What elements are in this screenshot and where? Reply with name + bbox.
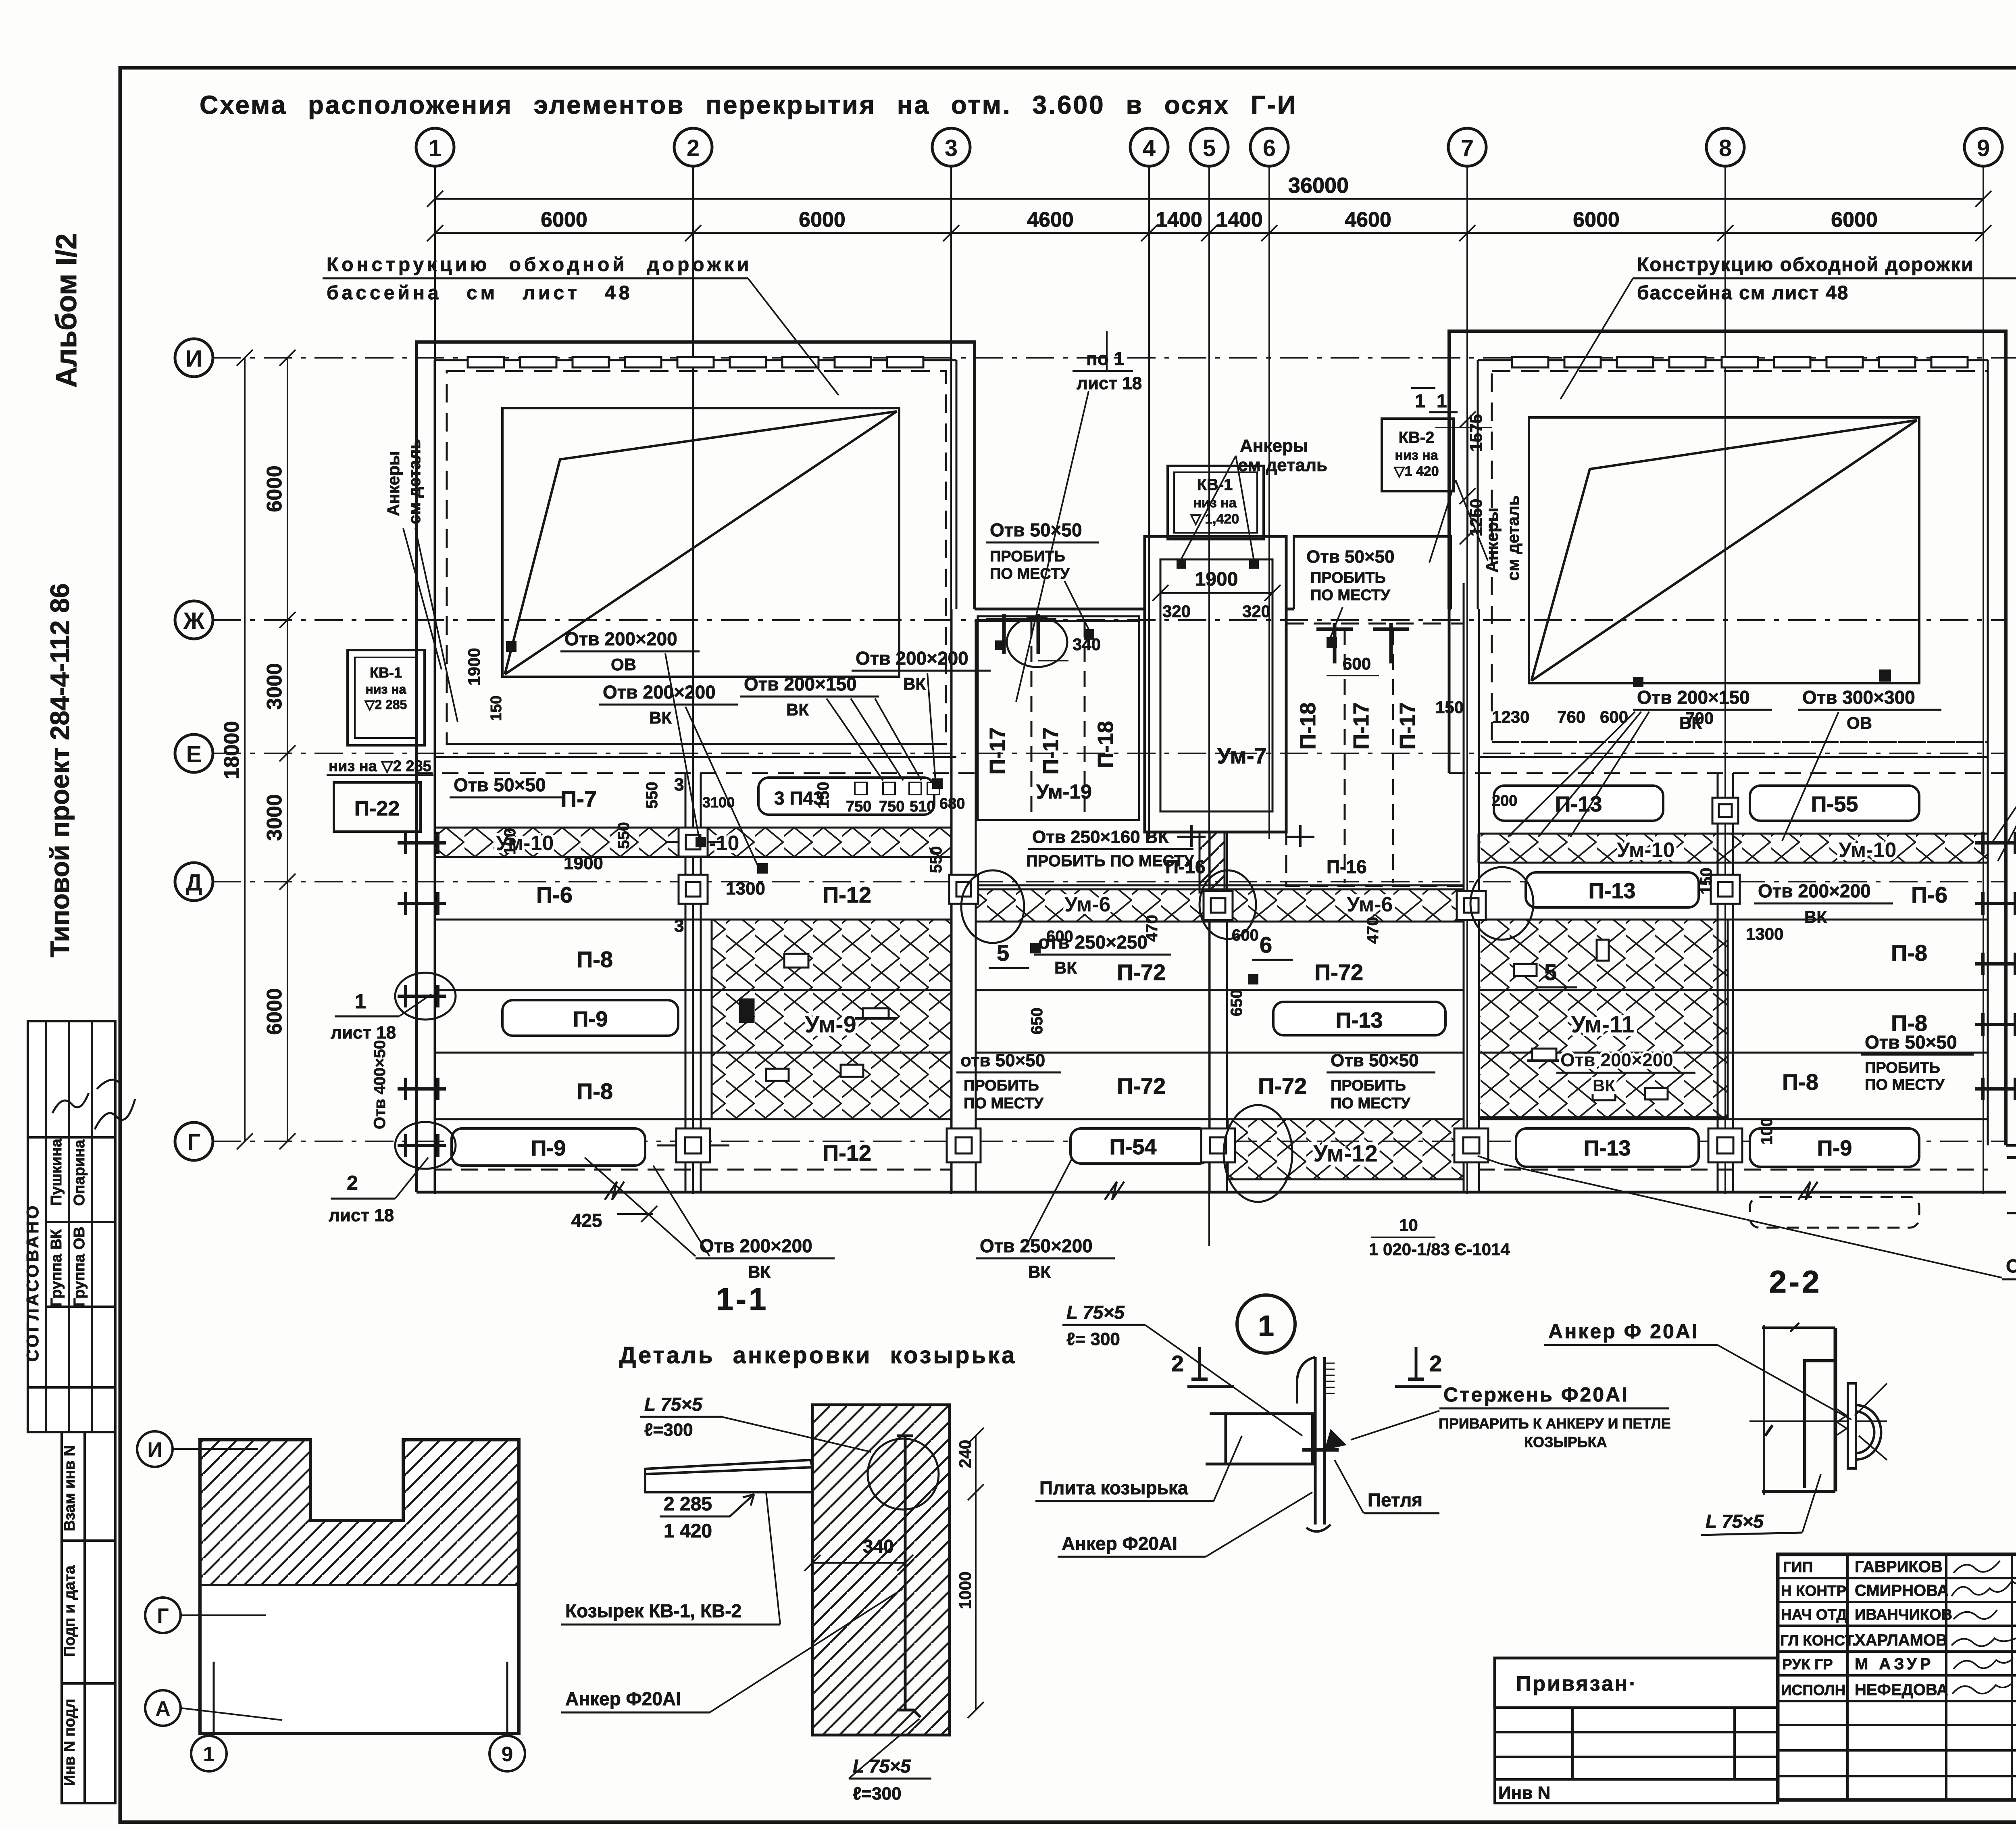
svg-text:П-9: П-9 [1817, 1136, 1852, 1160]
svg-text:Стержень Ф20АI: Стержень Ф20АI [1443, 1383, 1629, 1406]
svg-text:100: 100 [501, 828, 519, 855]
left P-17/P-18 plate strips [978, 616, 1139, 820]
svg-text:П-13: П-13 [1584, 1136, 1631, 1160]
svg-text:1300: 1300 [726, 879, 765, 899]
svg-text:750: 750 [846, 798, 871, 815]
svg-text:1000: 1000 [956, 1572, 975, 1609]
svg-text:П-6: П-6 [536, 882, 573, 907]
svg-text:ПО МЕСТУ: ПО МЕСТУ [1310, 587, 1390, 604]
right side dims of 1-1 [968, 1428, 984, 1718]
notch box 'Отв 50x50 пробить по месту' [1294, 536, 1451, 609]
svg-text:650: 650 [1228, 989, 1245, 1016]
title block left labels [1780, 1558, 1952, 1699]
svg-text:П-8: П-8 [1782, 1069, 1818, 1095]
svg-text:Анкеры: Анкеры [1483, 507, 1502, 573]
right pool basin [1529, 417, 1919, 683]
svg-text:1: 1 [355, 990, 366, 1013]
left pool anchor strip [468, 357, 923, 367]
svg-text:ℓ=300: ℓ=300 [644, 1420, 693, 1440]
top dimension line 36000 [427, 191, 1991, 241]
right pool outer wall [1449, 331, 2006, 1145]
plain band labels right [1782, 882, 1947, 1095]
rounded plate P-13 bottom [1516, 1128, 1699, 1167]
svg-text:3: 3 [945, 135, 958, 161]
plan bottom edge [417, 1191, 2006, 1194]
svg-text:Плита козырька: Плита козырька [1039, 1477, 1188, 1498]
svg-text:ПРОБИТЬ ПО МЕСТУ: ПРОБИТЬ ПО МЕСТУ [1026, 852, 1194, 870]
svg-text:3000: 3000 [263, 663, 286, 710]
svg-text:по 1: по 1 [1086, 348, 1124, 369]
svg-text:1-1: 1-1 [716, 1281, 769, 1317]
svg-text:Подп и дата: Подп и дата [61, 1565, 78, 1657]
svg-text:Отв 200×200: Отв 200×200 [1758, 880, 1871, 901]
detail callout circle 1 [1237, 1295, 1295, 1353]
svg-text:А: А [155, 1697, 171, 1721]
svg-text:ПРОБИТЬ: ПРОБИТЬ [1331, 1077, 1406, 1094]
svg-text:И: И [147, 1438, 162, 1462]
svg-text:340: 340 [863, 1536, 894, 1557]
svg-text:Отв 50×50: Отв 50×50 [1306, 547, 1395, 567]
svg-text:НАЧ ОТД: НАЧ ОТД [1781, 1606, 1847, 1623]
svg-text:Ум-19: Ум-19 [1036, 780, 1092, 803]
svg-text:L 75×5: L 75×5 [644, 1394, 703, 1415]
small black squares openings [506, 640, 2016, 984]
KV-2 canopy box (axis 7) [1382, 419, 1454, 491]
svg-text:см деталь: см деталь [1238, 455, 1327, 475]
svg-text:П-18: П-18 [1296, 703, 1320, 750]
svg-text:лист 18: лист 18 [331, 1023, 396, 1043]
rounded plate P-9 lower left [452, 1128, 645, 1166]
svg-text:600: 600 [1343, 654, 1371, 673]
svg-text:Анкер Ф 20АI: Анкер Ф 20АI [1548, 1320, 1699, 1343]
svg-text:Пушкина: Пушкина [48, 1139, 65, 1206]
svg-text:Инв N: Инв N [1498, 1783, 1550, 1803]
svg-text:150: 150 [1697, 868, 1715, 895]
svg-text:Г: Г [187, 1129, 201, 1155]
svg-text:Петля: Петля [1368, 1489, 1422, 1510]
svg-text:низ на: низ на [1395, 448, 1438, 463]
svg-text:Анкеры: Анкеры [384, 451, 403, 516]
right pool anchor strip [1512, 357, 1968, 367]
svg-text:П-13: П-13 [1336, 1008, 1383, 1032]
svg-text:бассейна см лист 48: бассейна см лист 48 [327, 282, 633, 304]
band horizontal lines middle section [976, 885, 1464, 1119]
svg-text:6000: 6000 [799, 208, 846, 231]
svg-text:ПО МЕСТУ: ПО МЕСТУ [1865, 1076, 1945, 1093]
svg-text:Отв 50×50: Отв 50×50 [990, 519, 1082, 540]
svg-text:РУК ГР: РУК ГР [1782, 1656, 1833, 1673]
svg-text:3: 3 [674, 775, 684, 795]
svg-text:Отв 200×200: Отв 200×200 [603, 682, 716, 703]
svg-text:низ на: низ на [1193, 495, 1237, 511]
svg-text:Инв N подл: Инв N подл [61, 1699, 78, 1786]
inventory strip [62, 1432, 115, 1803]
svg-text:9: 9 [1977, 135, 1990, 161]
detail 1-1 drawing: wall with canopy [812, 1405, 950, 1735]
rounded plate P-9 right bottom [1750, 1128, 1919, 1167]
svg-text:ОВ: ОВ [611, 655, 636, 674]
band horizontal lines left section [435, 828, 952, 1170]
left pool outer wall [417, 342, 975, 1192]
svg-text:1: 1 [1258, 1310, 1274, 1342]
svg-text:1: 1 [429, 135, 442, 161]
svg-text:1 420: 1 420 [664, 1520, 712, 1542]
svg-text:Козырек КВ-1, КВ-2: Козырек КВ-1, КВ-2 [565, 1600, 741, 1621]
svg-text:150: 150 [1435, 698, 1464, 717]
svg-text:320: 320 [1162, 602, 1191, 621]
plate P-22 [334, 782, 421, 832]
svg-text:Отв 200×150: Отв 200×150 [1637, 687, 1750, 708]
svg-text:Привязан·: Привязан· [1516, 1672, 1638, 1696]
svg-text:П-17: П-17 [985, 728, 1010, 775]
svg-text:П-16: П-16 [1327, 856, 1367, 877]
left pool lower wall [417, 342, 975, 773]
svg-text:600: 600 [1046, 928, 1073, 945]
detail 2-2 drawing [1749, 1323, 1887, 1495]
svg-text:240: 240 [956, 1440, 975, 1468]
svg-text:П-55: П-55 [1811, 792, 1858, 816]
svg-text:Ум-6: Ум-6 [1064, 893, 1110, 916]
KV-1 canopy box (center) [1168, 466, 1264, 539]
svg-text:Анкер Ф20АI: Анкер Ф20АI [1062, 1533, 1177, 1554]
rounded plate P-13 right mid [1526, 872, 1699, 907]
svg-text:ВК: ВК [1804, 907, 1827, 926]
crosshatch band Um-10 left [435, 828, 952, 857]
svg-text:L 75×5: L 75×5 [1066, 1302, 1125, 1323]
svg-text:340: 340 [1073, 635, 1101, 654]
svg-text:ГИП: ГИП [1783, 1559, 1813, 1575]
svg-text:2: 2 [347, 1172, 358, 1194]
svg-text:низ на ▽2 285: низ на ▽2 285 [329, 758, 431, 775]
svg-text:Группа ОВ: Группа ОВ [71, 1226, 88, 1307]
rounded plate P-13 right top [1494, 786, 1663, 821]
svg-text:Конструкцию обходной дорожки: Конструкцию обходной дорожки [327, 254, 752, 275]
svg-text:СМИРНОВА: СМИРНОВА [1855, 1582, 1949, 1600]
svg-text:1: 1 [1415, 390, 1425, 411]
svg-text:КВ-1: КВ-1 [1197, 476, 1233, 494]
svg-text:3000: 3000 [263, 794, 286, 841]
svg-text:П-8: П-8 [1891, 940, 1927, 966]
svg-text:320: 320 [1242, 602, 1270, 621]
svg-text:Ум-11: Ум-11 [1571, 1011, 1635, 1038]
svg-text:650: 650 [1028, 1007, 1046, 1034]
column axis circles 1-9 [416, 128, 2002, 166]
svg-text:ВК: ВК [903, 674, 926, 693]
svg-text:Ж: Ж [183, 608, 205, 634]
svg-text:П-7: П-7 [560, 786, 597, 811]
left pool inner dashed edge [447, 371, 946, 744]
svg-text:П-13: П-13 [1555, 792, 1602, 816]
svg-text:1400: 1400 [1156, 208, 1202, 231]
svg-text:1900: 1900 [464, 648, 483, 686]
row axis circles [175, 339, 213, 1160]
svg-text:5: 5 [1203, 135, 1216, 161]
svg-text:200: 200 [1492, 792, 1517, 809]
svg-text:ХАРЛАМОВ: ХАРЛАМОВ [1855, 1631, 1947, 1649]
svg-text:П-12: П-12 [823, 1140, 871, 1166]
right pool lower wall [1449, 609, 2006, 773]
svg-text:ОВ: ОВ [1847, 713, 1872, 732]
svg-text:ПО МЕСТУ: ПО МЕСТУ [990, 565, 1070, 582]
svg-text:Ум-12: Ум-12 [1313, 1141, 1378, 1167]
svg-text:10: 10 [1399, 1216, 1418, 1235]
svg-text:лист 18: лист 18 [329, 1205, 394, 1225]
svg-text:Ум-9: Ум-9 [805, 1011, 856, 1038]
main title block [1778, 1554, 2016, 1800]
svg-text:470: 470 [1143, 915, 1161, 942]
svg-text:Отв 50×50: Отв 50×50 [454, 774, 546, 795]
svg-text:Отв 250×200: Отв 250×200 [980, 1235, 1093, 1256]
svg-text:6000: 6000 [541, 208, 587, 231]
svg-text:Отв 200×200: Отв 200×200 [2006, 1255, 2016, 1276]
svg-text:ПРОБИТЬ: ПРОБИТЬ [1865, 1059, 1940, 1076]
rounded plate P-55 [1750, 786, 1919, 821]
plain band labels middle [1117, 959, 1363, 1099]
svg-text:ИСПОЛН: ИСПОЛН [1781, 1682, 1845, 1698]
approval stamp table [28, 1021, 115, 1432]
svg-text:150: 150 [488, 696, 505, 721]
svg-text:7: 7 [1461, 135, 1474, 161]
svg-text:Н КОНТР: Н КОНТР [1781, 1583, 1846, 1599]
svg-text:П-18: П-18 [1093, 721, 1118, 768]
svg-text:Ум-7: Ум-7 [1217, 743, 1266, 768]
crosshatch area Um-11 [1479, 920, 1728, 1117]
svg-text:Деталь анкеровки козырька: Деталь анкеровки козырька [619, 1342, 1016, 1368]
svg-text:2: 2 [1171, 1351, 1184, 1376]
svg-text:Альбом I/2: Альбом I/2 [50, 234, 83, 388]
svg-text:5: 5 [997, 940, 1009, 966]
shaft lower hatched wall [1200, 832, 1225, 893]
crosshatch band Um-12 [1228, 1119, 1464, 1179]
svg-text:П-12: П-12 [823, 882, 871, 907]
svg-text:НЕФЕДОВА: НЕФЕДОВА [1855, 1681, 1948, 1699]
svg-text:П-9: П-9 [573, 1007, 608, 1031]
svg-text:Ум-6: Ум-6 [1347, 893, 1393, 916]
svg-text:П-9: П-9 [531, 1136, 566, 1160]
svg-text:1230: 1230 [1492, 707, 1529, 726]
rounded plate P-54 [1070, 1128, 1210, 1164]
svg-text:ВК: ВК [1679, 713, 1702, 732]
svg-text:Отв 200×150: Отв 200×150 [744, 674, 857, 694]
svg-text:▽2 285: ▽2 285 [364, 697, 407, 712]
svg-text:510: 510 [910, 798, 935, 815]
svg-text:Отв 200×200: Отв 200×200 [856, 648, 968, 669]
svg-text:4600: 4600 [1027, 208, 1074, 231]
svg-text:Отв 200×200: Отв 200×200 [1560, 1049, 1673, 1070]
svg-text:ВК: ВК [1054, 958, 1077, 977]
svg-text:П-72: П-72 [1314, 959, 1363, 985]
left KV-1 box on axis 1 [348, 650, 425, 745]
canopy slab [645, 1460, 812, 1492]
svg-text:2-2: 2-2 [1769, 1264, 1822, 1299]
svg-text:Отв 200×200: Отв 200×200 [700, 1235, 812, 1256]
svg-text:4: 4 [1143, 135, 1156, 161]
svg-text:Схема расположения элементов: Схема расположения элементов перекрытия … [200, 90, 1297, 119]
svg-text:2: 2 [1429, 1351, 1442, 1376]
svg-text:ВК: ВК [649, 708, 672, 727]
svg-text:отв 50×50: отв 50×50 [960, 1051, 1045, 1070]
key plan axis circles [137, 1431, 525, 1771]
svg-text:Отв 300×300: Отв 300×300 [1802, 687, 1915, 708]
svg-text:470: 470 [1364, 917, 1382, 944]
svg-text:2 285: 2 285 [664, 1493, 712, 1515]
svg-text:760: 760 [1557, 707, 1585, 726]
svg-text:550: 550 [927, 846, 945, 873]
svg-text:ИВАНЧИКОВ: ИВАНЧИКОВ [1855, 1606, 1952, 1623]
svg-text:Отв 50×50: Отв 50×50 [1865, 1032, 1957, 1053]
svg-text:Конструкцию обходной дорожки: Конструкцию обходной дорожки [1637, 254, 1974, 275]
svg-text:ВК: ВК [786, 700, 809, 719]
svg-text:3100: 3100 [702, 794, 735, 811]
rounded plate P-13 middle [1273, 1002, 1445, 1035]
crosshatch band Um-6 [976, 889, 1464, 922]
svg-text:1400: 1400 [1216, 208, 1263, 231]
svg-text:ПРИВАРИТЬ К АНКЕРУ И ПЕТЛЕ: ПРИВАРИТЬ К АНКЕРУ И ПЕТЛЕ [1439, 1415, 1671, 1432]
svg-text:см деталь: см деталь [1504, 495, 1522, 581]
svg-text:680: 680 [939, 795, 965, 812]
svg-text:6000: 6000 [263, 988, 286, 1035]
ruled marks on anchor [1325, 1363, 1335, 1393]
svg-text:М АЗУР: М АЗУР [1855, 1655, 1934, 1673]
svg-text:100: 100 [1758, 1118, 1776, 1145]
svg-text:ВК: ВК [1593, 1076, 1615, 1095]
svg-text:ПРОБИТЬ: ПРОБИТЬ [1310, 569, 1386, 586]
crosshatch area Um-9 [712, 920, 952, 1119]
privyazan box [1495, 1658, 1778, 1708]
svg-text:4600: 4600 [1345, 208, 1391, 231]
svg-text:Г: Г [157, 1604, 169, 1628]
stamp signatures [95, 1080, 135, 1129]
svg-text:1575: 1575 [1466, 414, 1485, 452]
svg-text:П-6: П-6 [1911, 882, 1947, 907]
small table under privyazan [1495, 1708, 1778, 1803]
svg-text:Отв 200×200: Отв 200×200 [564, 628, 677, 649]
svg-text:6: 6 [1263, 135, 1276, 161]
svg-text:Отв 250×160 ВК: Отв 250×160 ВК [1032, 827, 1169, 847]
svg-text:550: 550 [643, 782, 661, 809]
svg-text:2: 2 [687, 135, 700, 161]
svg-text:1: 1 [203, 1743, 215, 1766]
svg-text:▽ 1,420: ▽ 1,420 [1190, 511, 1239, 527]
rounded plate 3 P43 [758, 778, 934, 815]
svg-text:36000: 36000 [1288, 173, 1349, 198]
anchor T glyphs on outer walls [398, 832, 2016, 1157]
detail 1: canopy plate and anchor [1206, 1357, 1347, 1531]
svg-text:Анкер Ф20АI: Анкер Ф20АI [565, 1688, 681, 1709]
section mark pair above shaft [986, 614, 1056, 654]
svg-text:П-17: П-17 [1039, 728, 1063, 775]
svg-text:6000: 6000 [263, 465, 286, 512]
svg-text:Е: Е [186, 741, 202, 767]
svg-text:8: 8 [1719, 135, 1732, 161]
svg-text:КВ-1: КВ-1 [370, 664, 402, 681]
left vertical dimension lines [237, 350, 296, 1149]
svg-text:1300: 1300 [1746, 924, 1783, 943]
svg-text:750: 750 [879, 798, 904, 815]
svg-text:1: 1 [1437, 390, 1447, 411]
svg-text:L 75×5: L 75×5 [853, 1756, 911, 1777]
right P-18/P-17 plate strips [1286, 624, 1464, 886]
svg-text:П-13: П-13 [1589, 879, 1636, 903]
svg-text:П-17: П-17 [1395, 703, 1420, 750]
svg-text:6000: 6000 [1831, 208, 1878, 231]
shaft Um-7 [1145, 536, 1286, 832]
svg-text:ПО МЕСТУ: ПО МЕСТУ [1331, 1095, 1410, 1112]
svg-text:1 020-1/83 Є-1014: 1 020-1/83 Є-1014 [1369, 1240, 1510, 1259]
svg-text:Ум-10: Ум-10 [1617, 838, 1674, 862]
svg-text:П-8: П-8 [577, 947, 613, 972]
leader from KV-2 to anchors [1456, 480, 1488, 561]
svg-text:Д: Д [185, 870, 202, 896]
svg-text:П-22: П-22 [354, 797, 400, 820]
vertical joint walls [685, 583, 1733, 1192]
svg-text:Группа ВК: Группа ВК [48, 1229, 65, 1307]
svg-text:1900: 1900 [564, 853, 603, 873]
row axis lines (dash-dot) [213, 358, 2016, 1141]
circled junction marks axis1 [395, 973, 456, 1020]
crosshatch band Um-10 right [1478, 834, 1988, 863]
right appendix chute [2006, 1075, 2016, 1213]
column axis lines [435, 166, 1983, 1246]
svg-text:Анкеры: Анкеры [1240, 436, 1308, 456]
svg-text:150: 150 [814, 782, 832, 809]
svg-text:П-17: П-17 [1349, 703, 1373, 750]
svg-text:КВ-2: КВ-2 [1399, 429, 1435, 446]
svg-text:▽1 420: ▽1 420 [1393, 464, 1439, 479]
svg-text:ПРОБИТЬ: ПРОБИТЬ [990, 548, 1065, 565]
svg-text:П-72: П-72 [1117, 1073, 1166, 1099]
svg-text:ℓ=300: ℓ=300 [853, 1784, 902, 1804]
plain band labels left [536, 786, 871, 1166]
svg-text:L 75×5: L 75×5 [1706, 1511, 1764, 1532]
svg-text:ВК: ВК [748, 1262, 771, 1281]
svg-text:Ум-10: Ум-10 [1839, 838, 1896, 862]
svg-text:550: 550 [615, 822, 633, 849]
svg-text:П-72: П-72 [1117, 959, 1166, 985]
left pool basin [502, 408, 899, 677]
section circles 5 and 6 [961, 870, 1024, 943]
svg-text:низ на: низ на [366, 682, 406, 697]
right pool inner dashed edge [1492, 371, 1988, 742]
svg-text:Отв 50×50: Отв 50×50 [1331, 1051, 1419, 1070]
svg-text:ПРОБИТЬ: ПРОБИТЬ [964, 1077, 1039, 1094]
svg-text:5: 5 [1544, 959, 1557, 985]
svg-text:П-54: П-54 [1110, 1135, 1157, 1159]
signatures [1951, 1561, 2016, 1694]
rounded plate P-9 upper left [502, 1000, 678, 1036]
svg-text:6000: 6000 [1573, 208, 1620, 231]
svg-text:1900: 1900 [1195, 569, 1238, 590]
svg-text:см деталь: см деталь [405, 439, 424, 524]
shaft top dim 1900/320 [1152, 585, 1281, 601]
svg-text:425: 425 [571, 1210, 602, 1231]
svg-text:П-8: П-8 [577, 1078, 613, 1104]
svg-text:И: И [185, 346, 202, 372]
key plan sketch bottom-left [200, 1440, 519, 1733]
anchor marks in Um-9 [1177, 559, 1259, 569]
svg-text:ВК: ВК [1028, 1262, 1051, 1281]
svg-text:Взам инв N: Взам инв N [61, 1445, 78, 1531]
svg-text:18000: 18000 [220, 721, 244, 780]
svg-text:СОГЛАСОВАНО: СОГЛАСОВАНО [23, 1203, 42, 1362]
svg-text:ГАВРИКОВ: ГАВРИКОВ [1855, 1558, 1943, 1576]
svg-text:Типовой проект 284-4-112 86: Типовой проект 284-4-112 86 [45, 583, 75, 957]
joint plate symbols [657, 798, 1742, 1162]
svg-text:ℓ= 300: ℓ= 300 [1066, 1329, 1120, 1349]
svg-text:9: 9 [502, 1743, 513, 1766]
svg-text:Опарина: Опарина [71, 1139, 88, 1206]
svg-text:6: 6 [1260, 932, 1272, 957]
